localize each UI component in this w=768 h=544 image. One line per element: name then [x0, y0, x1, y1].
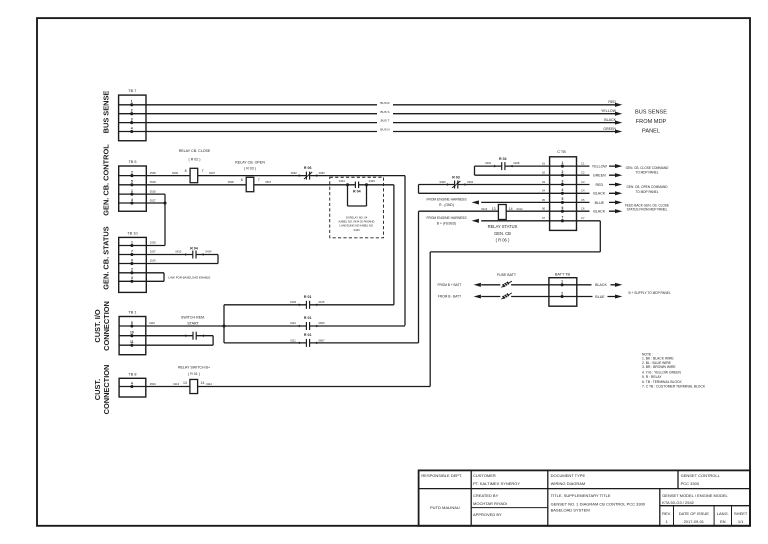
- svg-text:R 06: R 06: [304, 166, 312, 170]
- svg-text:YELLOW: YELLOW: [601, 109, 617, 113]
- svg-text:CREATED BY: CREATED BY: [473, 493, 499, 498]
- svg-text:0114: 0114: [206, 382, 212, 386]
- svg-text:0413: 0413: [481, 207, 487, 211]
- svg-text:BUS N: BUS N: [380, 128, 389, 132]
- svg-text:R 02: R 02: [499, 157, 507, 161]
- svg-text:BLACK: BLACK: [593, 192, 605, 196]
- svg-text:10: 10: [130, 331, 134, 335]
- svg-text:4: 4: [131, 381, 133, 385]
- svg-text:8: 8: [185, 169, 187, 173]
- svg-text:0604: 0604: [150, 382, 156, 386]
- svg-text:0508: 0508: [150, 171, 156, 175]
- svg-text:CUST.: CUST.: [93, 379, 102, 400]
- svg-text:C6: C6: [581, 207, 585, 211]
- svg-text:4: 4: [561, 188, 563, 192]
- svg-text:GENSET CONTROLL: GENSET CONTROLL: [681, 473, 721, 478]
- svg-text:CONNECTION: CONNECTION: [102, 301, 111, 351]
- svg-text:0206: 0206: [172, 171, 178, 175]
- svg-text:1: 1: [561, 161, 563, 165]
- svg-text:B + SUPPLY TO MDP PANEL: B + SUPPLY TO MDP PANEL: [629, 291, 671, 295]
- svg-text:FROM MDP: FROM MDP: [636, 119, 667, 125]
- svg-text:0607: 0607: [319, 338, 325, 342]
- svg-text:APPROVED BY: APPROVED BY: [473, 512, 502, 517]
- svg-text:REV.: REV.: [662, 511, 671, 516]
- svg-text:7: 7: [131, 249, 133, 253]
- svg-text:0111: 0111: [290, 338, 296, 342]
- svg-text:5: 5: [131, 321, 133, 325]
- svg-text:0109: 0109: [290, 300, 296, 304]
- svg-text:03: 03: [542, 180, 545, 184]
- svg-text:RESPONSIBLE DEPT.: RESPONSIBLE DEPT.: [421, 473, 462, 478]
- svg-text:TB 5: TB 5: [128, 160, 136, 164]
- svg-text:RELAY CB. CLOSE: RELAY CB. CLOSE: [179, 149, 211, 153]
- svg-text:6: 6: [561, 206, 563, 210]
- svg-text:7: 7: [202, 169, 204, 173]
- svg-text:TB 8: TB 8: [128, 372, 136, 376]
- svg-text:5: 5: [131, 180, 133, 184]
- svg-text:0517: 0517: [150, 198, 156, 202]
- svg-text:4: 4: [131, 198, 133, 202]
- svg-text:LANG.: LANG.: [717, 511, 729, 516]
- svg-text:0434: 0434: [206, 250, 212, 254]
- svg-text:FROM ENGINE HARNESS: FROM ENGINE HARNESS: [426, 216, 467, 220]
- svg-text:BATT TB: BATT TB: [555, 272, 571, 276]
- svg-text:R 01: R 01: [304, 316, 312, 320]
- svg-text:0434: 0434: [339, 179, 345, 183]
- svg-text:GEN. CB. OPEN COMMAND: GEN. CB. OPEN COMMAND: [626, 185, 668, 189]
- svg-text:4. Y/G : YELLOW GREEN: 4. Y/G : YELLOW GREEN: [642, 371, 681, 375]
- svg-text:3: 3: [131, 117, 133, 121]
- svg-text:R 01: R 01: [304, 333, 312, 337]
- svg-text:1: 1: [131, 240, 133, 244]
- svg-text:( R 03 ): ( R 03 ): [244, 166, 256, 170]
- svg-text:( R 06 ): ( R 06 ): [496, 237, 510, 242]
- svg-text:( R 01 ): ( R 01 ): [188, 372, 200, 376]
- svg-text:FROM ENGINE HARNESS: FROM ENGINE HARNESS: [426, 197, 467, 201]
- svg-text:0207: 0207: [209, 171, 215, 175]
- svg-text:13: 13: [492, 207, 496, 211]
- svg-text:EN: EN: [720, 519, 726, 524]
- svg-text:BLUE: BLUE: [595, 295, 605, 299]
- svg-text:TITLE, SUPPLEMENTARY TITLE: TITLE, SUPPLEMENTARY TITLE: [551, 493, 611, 498]
- svg-text:01: 01: [542, 162, 545, 166]
- svg-text:BUS SENSE: BUS SENSE: [101, 91, 110, 134]
- svg-text:C2: C2: [581, 171, 585, 175]
- svg-text:BLACK: BLACK: [595, 283, 607, 287]
- svg-text:TO MDP PANEL: TO MDP PANEL: [635, 190, 658, 194]
- svg-text:0508: 0508: [228, 180, 234, 184]
- svg-text:1009: 1009: [150, 241, 156, 245]
- svg-text:PT. KALTIMEX SYNERGY: PT. KALTIMEX SYNERGY: [473, 481, 520, 486]
- svg-text:RELAY SWITCH B+: RELAY SWITCH B+: [178, 366, 210, 370]
- svg-text:1007: 1007: [150, 250, 156, 254]
- svg-text:7: 7: [258, 178, 260, 182]
- svg-text:1: 1: [131, 100, 133, 104]
- svg-text:0425: 0425: [175, 250, 181, 254]
- svg-text:1: 1: [561, 280, 563, 284]
- svg-text:5. R : RELAY: 5. R : RELAY: [642, 375, 662, 379]
- svg-text:GEN. CB: GEN. CB: [494, 231, 511, 236]
- svg-text:0433: 0433: [369, 179, 375, 183]
- svg-text:9: 9: [131, 258, 133, 262]
- svg-text:GEN. CB. CLOSE COMMAND: GEN. CB. CLOSE COMMAND: [626, 166, 669, 170]
- svg-text:TB 7: TB 7: [128, 89, 136, 93]
- svg-text:KABEL NO. 0434 DI PASANG: KABEL NO. 0434 DI PASANG: [339, 220, 375, 224]
- svg-text:B + (FUSED): B + (FUSED): [437, 222, 456, 226]
- svg-text:GREEN: GREEN: [593, 174, 606, 178]
- svg-text:SWITCH REM.: SWITCH REM.: [181, 316, 205, 320]
- svg-text:BLUE: BLUE: [595, 201, 605, 205]
- svg-text:3: 3: [131, 276, 133, 280]
- svg-text:R 03: R 03: [452, 176, 460, 180]
- svg-text:2: 2: [131, 109, 133, 113]
- svg-text:LANGSUNG KE KABEL NO.: LANGSUNG KE KABEL NO.: [339, 224, 374, 228]
- svg-text:BLACK: BLACK: [593, 210, 605, 214]
- svg-text:SHEET: SHEET: [734, 511, 748, 516]
- svg-text:STATUS FROM MDP PANEL: STATUS FROM MDP PANEL: [627, 207, 668, 211]
- svg-text:PANEL: PANEL: [642, 129, 660, 135]
- svg-text:CUST. I/O: CUST. I/O: [93, 309, 102, 343]
- svg-text:2: 2: [131, 268, 133, 272]
- svg-text:2: 2: [561, 170, 563, 174]
- svg-text:3. BR : BROWN WIRE: 3. BR : BROWN WIRE: [642, 365, 676, 369]
- svg-text:LINK FOR BASELOAD ENABLE: LINK FOR BASELOAD ENABLE: [169, 275, 211, 279]
- svg-text:PCC 3300: PCC 3300: [681, 481, 700, 486]
- svg-text:R - (GND): R - (GND): [439, 203, 454, 207]
- svg-text:R 01: R 01: [304, 295, 312, 299]
- svg-text:0306: 0306: [440, 180, 446, 184]
- svg-text:05: 05: [542, 198, 545, 202]
- svg-text:0507: 0507: [265, 180, 271, 184]
- svg-text:GENSET MODEL / ENGINE MODEL: GENSET MODEL / ENGINE MODEL: [662, 493, 728, 498]
- svg-text:0518: 0518: [150, 180, 156, 184]
- svg-text:DOCUMENT TYPE: DOCUMENT TYPE: [551, 473, 586, 478]
- svg-text:START: START: [187, 322, 199, 326]
- svg-text:KTA 50-G3 / 2542: KTA 50-G3 / 2542: [662, 500, 694, 505]
- svg-text:BUS T: BUS T: [381, 119, 390, 123]
- svg-text:RELAY STATUS: RELAY STATUS: [488, 224, 518, 229]
- svg-text:06: 06: [542, 207, 545, 211]
- svg-text:2: 2: [561, 291, 563, 295]
- svg-text:CUSTOMER: CUSTOMER: [473, 473, 496, 478]
- svg-text:0105: 0105: [319, 300, 325, 304]
- svg-text:02: 02: [542, 171, 545, 175]
- svg-text:FROM B - BATT: FROM B - BATT: [438, 295, 461, 299]
- svg-text:14: 14: [201, 381, 205, 385]
- svg-text:2: 2: [131, 170, 133, 174]
- svg-text:7: 7: [561, 216, 563, 220]
- svg-text:TO MDP PANEL: TO MDP PANEL: [635, 171, 658, 175]
- svg-text:0414: 0414: [517, 207, 523, 211]
- svg-text:GEN. CB. CONTROL: GEN. CB. CONTROL: [101, 144, 110, 216]
- svg-text:0516: 0516: [150, 190, 156, 194]
- svg-text:( R 02 ): ( R 02 ): [189, 158, 201, 162]
- svg-text:13: 13: [183, 381, 187, 385]
- svg-text:0433: 0433: [354, 228, 360, 232]
- svg-text:11: 11: [130, 340, 134, 344]
- svg-text:0208: 0208: [513, 161, 519, 165]
- svg-text:BUS R: BUS R: [380, 101, 390, 105]
- svg-text:DI RELAY NO. 04: DI RELAY NO. 04: [346, 215, 368, 219]
- svg-text:6. TB : TERMINAL BLOCK: 6. TB : TERMINAL BLOCK: [642, 380, 682, 384]
- svg-text:GENSET NO. 1 DIAGRAM CB CONTRO: GENSET NO. 1 DIAGRAM CB CONTROL PCC 3300: [551, 502, 646, 507]
- svg-text:FROM B + BATT: FROM B + BATT: [438, 283, 462, 287]
- svg-text:CONNECTION: CONNECTION: [102, 365, 111, 415]
- svg-text:TB 1: TB 1: [128, 311, 136, 315]
- svg-text:PUTD MALINAU: PUTD MALINAU: [430, 505, 460, 510]
- svg-text:1/1: 1/1: [738, 519, 744, 524]
- svg-text:C4: C4: [581, 189, 585, 193]
- svg-text:0110: 0110: [149, 321, 155, 325]
- svg-text:0302: 0302: [467, 180, 473, 184]
- svg-text:1109: 1109: [150, 259, 156, 263]
- svg-text:7. C TB : CUSTOMER TERMINAL BL: 7. C TB : CUSTOMER TERMINAL BLOCK: [642, 385, 706, 389]
- svg-text:TB 10: TB 10: [127, 231, 137, 235]
- svg-text:1: 1: [131, 189, 133, 193]
- svg-text:5: 5: [561, 197, 563, 201]
- svg-text:2017-09-01: 2017-09-01: [684, 519, 705, 524]
- svg-text:GREEN: GREEN: [603, 127, 616, 131]
- svg-text:0663: 0663: [319, 171, 325, 175]
- svg-text:DATE OF ISSUE: DATE OF ISSUE: [679, 511, 709, 516]
- svg-text:YELLOW: YELLOW: [592, 165, 608, 169]
- svg-text:C7: C7: [581, 216, 585, 220]
- svg-text:C TB: C TB: [557, 150, 566, 154]
- svg-text:MOCHTAR RIYADI: MOCHTAR RIYADI: [473, 501, 507, 506]
- svg-text:BUS SENSE: BUS SENSE: [635, 110, 667, 116]
- svg-text:BLACK: BLACK: [604, 118, 616, 122]
- svg-text:GEN. CB. STATUS: GEN. CB. STATUS: [101, 226, 110, 289]
- svg-text:RELAY CB. OPEN: RELAY CB. OPEN: [235, 160, 265, 164]
- svg-text:R 04: R 04: [190, 246, 198, 250]
- svg-text:C3: C3: [581, 180, 585, 184]
- svg-text:RED: RED: [596, 183, 604, 187]
- svg-text:04: 04: [542, 189, 545, 193]
- svg-text:R 04: R 04: [353, 190, 361, 194]
- svg-text:0606: 0606: [319, 321, 325, 325]
- svg-text:BUS S: BUS S: [380, 110, 389, 114]
- svg-text:BASELOAD SYSTEM: BASELOAD SYSTEM: [551, 508, 590, 513]
- svg-text:3: 3: [561, 179, 563, 183]
- svg-text:07: 07: [542, 216, 545, 220]
- svg-text:C5: C5: [581, 198, 585, 202]
- svg-text:0662: 0662: [291, 171, 297, 175]
- svg-text:8: 8: [241, 178, 243, 182]
- svg-text:FUSE BATT: FUSE BATT: [497, 273, 517, 277]
- svg-text:14: 14: [509, 207, 513, 211]
- svg-text:C1: C1: [581, 162, 585, 166]
- svg-text:WIRING DIAGRAM: WIRING DIAGRAM: [551, 481, 586, 486]
- svg-text:0204: 0204: [485, 161, 491, 165]
- svg-text:0110: 0110: [290, 321, 296, 325]
- svg-text:0113: 0113: [173, 382, 179, 386]
- svg-text:4: 4: [131, 126, 133, 130]
